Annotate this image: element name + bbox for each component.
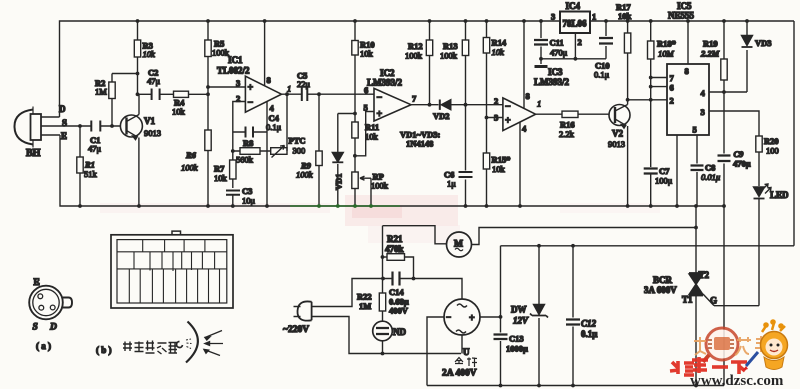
svg-text:1: 1 <box>537 99 541 109</box>
svg-text:R20: R20 <box>764 136 779 146</box>
capacitor C6 <box>459 105 473 206</box>
svg-text:V1: V1 <box>144 116 155 126</box>
svg-text:S: S <box>33 323 38 333</box>
resistor R15* <box>483 118 489 207</box>
svg-text:IC5: IC5 <box>677 1 692 11</box>
svg-text:300: 300 <box>293 146 306 156</box>
svg-text:BH: BH <box>26 148 41 159</box>
resistor R17 <box>624 21 630 100</box>
svg-text:100μ: 100μ <box>655 176 673 186</box>
svg-text:0.1μ: 0.1μ <box>266 122 282 132</box>
svg-text:R7: R7 <box>214 164 225 174</box>
svg-text:10k: 10k <box>143 49 156 59</box>
svg-text:0.1μ: 0.1μ <box>594 70 610 80</box>
wire: gate wire to LED column <box>714 305 759 307</box>
svg-text:R19: R19 <box>703 39 718 49</box>
svg-text:www.dzsc.com: www.dzsc.com <box>690 373 784 389</box>
svg-text:8: 8 <box>685 66 689 76</box>
svg-text:V2: V2 <box>612 129 623 139</box>
resistor R11 <box>352 114 358 156</box>
svg-text:R16: R16 <box>560 120 575 130</box>
wire: bridge bottom to AC2 <box>461 335 463 354</box>
svg-text:LM393/2: LM393/2 <box>534 77 569 87</box>
svg-text:22μ: 22μ <box>297 79 311 89</box>
svg-text:3: 3 <box>494 113 498 123</box>
svg-text:100k: 100k <box>296 170 313 180</box>
svg-text:100k: 100k <box>405 51 423 61</box>
wire: IC4 pin2 ground wire <box>541 33 606 59</box>
svg-text:+: + <box>469 313 475 324</box>
svg-text:2.2k: 2.2k <box>559 129 575 139</box>
svg-text:IC4: IC4 <box>566 1 581 11</box>
svg-text:47μ: 47μ <box>88 144 102 154</box>
wire: node A (VD1/R10/R11) <box>338 113 355 115</box>
svg-text:ND: ND <box>393 327 406 337</box>
resistor R20 <box>756 136 762 186</box>
svg-text:E: E <box>34 278 40 288</box>
svg-text:10k: 10k <box>492 47 505 57</box>
svg-text:10k: 10k <box>492 164 506 174</box>
svg-text:47μ: 47μ <box>147 76 161 86</box>
watermark pink residue blocks <box>100 195 660 243</box>
wire: IC2 pin5 to R11/RP node <box>355 112 374 156</box>
wire: top supply rail right of IC4 (6V/12V side) <box>590 20 794 22</box>
svg-text:TL082/2: TL082/2 <box>217 66 250 76</box>
wire: C5 to IC2 pin6 <box>319 93 374 95</box>
wire: S signal wire to V1 base <box>45 125 121 127</box>
svg-text:1M: 1M <box>359 301 371 311</box>
svg-text:E: E <box>61 131 67 141</box>
svg-text:R14: R14 <box>492 38 507 48</box>
svg-text:−: − <box>248 98 254 109</box>
capacitor C9 <box>718 92 731 206</box>
resistor R10 <box>352 21 358 114</box>
watermark: magnifier logo with chip <box>703 328 738 362</box>
svg-text:6: 6 <box>364 85 368 95</box>
svg-text:8: 8 <box>526 91 530 101</box>
wire: IC5 pin3 output wire <box>709 111 759 136</box>
wire: V2 collector node to IC5 pin2 <box>628 99 667 101</box>
svg-text:+: + <box>505 116 511 127</box>
wire: motor to triac T2 <box>472 228 697 245</box>
svg-text:T2: T2 <box>699 270 710 280</box>
wire: V1 collector node to C2 <box>138 93 152 95</box>
sensor pinout diagram (a) <box>29 286 72 320</box>
green tinted segment of ground rail <box>290 205 400 207</box>
wire: IC5 pin6 link <box>651 86 667 88</box>
svg-text:2: 2 <box>578 37 582 47</box>
svg-text:C12: C12 <box>581 319 597 329</box>
svg-text:1M: 1M <box>95 87 107 97</box>
wire: IC1 pin2 to feedback node <box>233 102 246 152</box>
svg-text:IC1: IC1 <box>228 55 243 65</box>
wire: right edge vertical from top rail down to DC+ wire <box>793 21 795 246</box>
label U 2A400V bridge <box>442 347 477 379</box>
wire: R14/R15 node to IC3 pin3 <box>487 117 503 119</box>
svg-text:U: U <box>463 347 470 357</box>
watermark: mascot <box>742 319 788 371</box>
svg-text:100k: 100k <box>440 51 458 61</box>
svg-text:2.2M: 2.2M <box>700 49 720 59</box>
capacitor C12 <box>566 246 580 386</box>
svg-text:100k: 100k <box>371 181 389 191</box>
junction dots power section <box>381 226 698 388</box>
label bridge CJK (quan qiao) <box>455 358 477 368</box>
lens cross-section sketch <box>177 322 223 363</box>
timer IC5 NE555 <box>667 64 709 135</box>
svg-text:R11: R11 <box>365 122 379 132</box>
svg-text:560k: 560k <box>236 155 254 165</box>
svg-text:R13: R13 <box>443 41 458 51</box>
label Fresnel lens CJK (fei nie er tou jing) <box>123 341 177 355</box>
svg-text:+: + <box>248 83 254 94</box>
resistor R5 <box>205 21 211 87</box>
svg-text:R22: R22 <box>357 292 372 302</box>
svg-text:IC2: IC2 <box>380 68 395 78</box>
wire: IC5 pin7 link <box>651 77 667 79</box>
svg-text:VD2: VD2 <box>433 111 450 121</box>
junction dots on ground rail <box>78 204 726 208</box>
svg-text:0.01μ: 0.01μ <box>701 172 720 182</box>
svg-text:LED: LED <box>770 190 789 200</box>
resistor R9 <box>316 94 322 206</box>
svg-text:10k: 10k <box>360 49 374 59</box>
svg-text:6: 6 <box>670 83 674 93</box>
junction dots signal nodes <box>78 57 726 158</box>
svg-text:R1: R1 <box>84 160 95 170</box>
svg-text:470k: 470k <box>385 244 404 254</box>
resistor R22 <box>379 293 385 311</box>
transistor V1 9013 <box>120 94 142 206</box>
svg-text:100: 100 <box>766 146 779 156</box>
svg-text:−: − <box>505 102 511 113</box>
svg-text:470μ: 470μ <box>733 159 751 169</box>
svg-text:G: G <box>710 296 717 306</box>
sensor BH (pyroelectric infrared detector) <box>14 107 60 148</box>
svg-text:M: M <box>454 240 463 250</box>
capacitor C1 <box>91 121 100 132</box>
svg-text:3A 600V: 3A 600V <box>644 285 677 295</box>
regulator IC4 78L06 <box>560 12 590 34</box>
svg-text:1μ: 1μ <box>447 179 456 189</box>
wire: IC1 output node and feedback vertical <box>282 94 302 151</box>
svg-text:R8: R8 <box>243 138 253 148</box>
svg-text:3: 3 <box>236 78 240 88</box>
svg-text:10M: 10M <box>658 49 675 59</box>
wire: bridge plus to DC+ node <box>480 246 794 317</box>
transistor V2 9013 <box>609 100 630 206</box>
wire: bridge AC1 top terminal <box>414 279 463 300</box>
resistor R2 <box>109 74 115 127</box>
wire: IC3 pin4 to ground rail <box>519 122 521 206</box>
svg-text:1: 1 <box>287 84 291 94</box>
wire: IC5 pin8 to top rail <box>687 21 689 64</box>
diode VD2 <box>440 100 503 110</box>
mains plug <box>294 301 312 320</box>
svg-text:NE555: NE555 <box>668 11 695 21</box>
svg-text:BCR: BCR <box>653 275 673 285</box>
watermark: zhao xin pian CJK outline text <box>694 336 769 355</box>
svg-text:12V: 12V <box>513 316 529 326</box>
svg-text:( b ): ( b ) <box>96 345 112 355</box>
svg-text:LM393/2: LM393/2 <box>367 78 402 88</box>
svg-text:C7: C7 <box>659 166 670 176</box>
svg-text:2A 400V: 2A 400V <box>442 369 477 379</box>
resistor R14 <box>483 21 489 118</box>
svg-text:−: − <box>377 93 383 104</box>
resistor R16 <box>536 111 609 117</box>
resistor R1 <box>77 126 83 206</box>
svg-text:C13: C13 <box>509 334 524 344</box>
svg-text:1N4148: 1N4148 <box>406 139 433 149</box>
svg-text:3: 3 <box>701 107 705 117</box>
wire: mains line 2 to bridge AC2 <box>312 317 461 354</box>
wire: C2 to R4 <box>160 93 174 95</box>
capacitor C10 <box>599 21 613 59</box>
capacitor C11 <box>534 21 548 64</box>
diode VD1 <box>332 114 343 207</box>
svg-text:C9: C9 <box>734 149 745 159</box>
resistor R18* <box>648 21 654 167</box>
capacitor C13 <box>494 317 508 386</box>
wire: IC2 output to VD2 <box>411 104 439 106</box>
svg-text:D: D <box>49 323 57 333</box>
junction dots on top supply rail <box>136 19 749 23</box>
svg-text:10k: 10k <box>172 107 186 117</box>
svg-text:R6: R6 <box>185 150 197 160</box>
svg-text:100k: 100k <box>181 163 198 173</box>
watermark: weiku yixia red CJK text <box>670 357 747 375</box>
motor M <box>447 232 472 257</box>
svg-text:~220V: ~220V <box>283 325 309 335</box>
capacitor C4 <box>233 127 267 138</box>
svg-text:51k: 51k <box>84 169 98 179</box>
svg-text:−: − <box>446 312 451 322</box>
svg-text:2: 2 <box>670 96 674 106</box>
capacitor C3 <box>226 191 240 207</box>
svg-text:10μ: 10μ <box>242 196 256 206</box>
svg-text:10k: 10k <box>618 11 632 21</box>
svg-text:9013: 9013 <box>608 139 625 149</box>
svg-text:R18*: R18* <box>657 39 676 49</box>
svg-text:78L06: 78L06 <box>563 19 588 29</box>
svg-text:1: 1 <box>592 12 596 22</box>
svg-text:8: 8 <box>267 75 271 85</box>
svg-text:D: D <box>59 104 66 114</box>
svg-text:R21: R21 <box>387 234 403 244</box>
wire: bottom ground rail of amplifier circuit <box>60 135 724 206</box>
op-amp IC2 LM393/2 (first comparator) <box>374 88 411 121</box>
wire: IC1 pin8 to top rail <box>264 21 266 86</box>
svg-text:VD1: VD1 <box>334 173 344 190</box>
op-amp IC1 TL082/2 <box>245 76 281 112</box>
wire: top supply rail left of IC4 <box>60 21 561 117</box>
svg-text:C11: C11 <box>550 38 564 48</box>
capacitor C7 <box>644 169 658 207</box>
svg-text:10k: 10k <box>214 173 228 183</box>
wire: IC5 pin1 to ground rail <box>676 135 678 206</box>
svg-text:C14: C14 <box>389 287 404 297</box>
neon lamp ND <box>373 321 393 341</box>
resistor R7 <box>230 151 236 188</box>
svg-text:5: 5 <box>693 125 697 135</box>
resistor R21 <box>383 254 414 279</box>
wire: IC1 pin4 to ground rail <box>266 102 268 207</box>
svg-text:9013: 9013 <box>144 128 161 138</box>
junction dots (green tinted section of ground rail) <box>317 204 373 208</box>
resistor R12 <box>426 21 432 105</box>
op-amp IC3 LM393/2 (second comparator) <box>503 98 536 131</box>
capacitor C14 <box>383 272 414 286</box>
svg-text:1000μ: 1000μ <box>506 344 528 354</box>
resistor R3 <box>134 21 140 94</box>
ground symbol (IC4 common) <box>535 65 548 68</box>
svg-text:+: + <box>377 109 383 120</box>
wire: divider node to IC1 pin3 <box>208 86 245 88</box>
potentiometer RP <box>352 156 371 206</box>
triac BCR <box>689 206 714 386</box>
svg-text:R15*: R15* <box>492 155 511 165</box>
svg-text:3: 3 <box>551 12 555 22</box>
svg-text:PTC: PTC <box>289 136 306 146</box>
resistor R4 <box>174 91 209 97</box>
svg-text:T1: T1 <box>682 295 693 305</box>
diode VD3 <box>742 21 753 92</box>
wire: R2 top to R3 bottom <box>112 73 138 75</box>
resistor R19 <box>721 21 727 92</box>
svg-text:IC3: IC3 <box>548 67 563 77</box>
bridge rectifier U <box>444 299 480 335</box>
wire: motor feed wire from dropper column <box>383 226 448 244</box>
svg-text:C8: C8 <box>705 163 715 173</box>
capacitor C8 on IC5 pin5 <box>691 135 704 206</box>
thermistor PTC <box>271 146 287 158</box>
zener diode DW <box>530 246 548 386</box>
svg-text:2: 2 <box>494 96 498 106</box>
LED <box>754 184 772 306</box>
wire: IC3 pin8 to top rail <box>523 21 525 109</box>
svg-text:R12: R12 <box>408 41 423 51</box>
wire: power ground rail <box>427 385 724 387</box>
svg-text:C3: C3 <box>242 186 252 196</box>
svg-text:DW: DW <box>511 305 527 315</box>
svg-text:( a ): ( a ) <box>36 341 51 351</box>
wire: dropper vertical (R21/R22/ND column) <box>382 226 384 354</box>
svg-text:10k: 10k <box>365 132 379 142</box>
capacitor C5 <box>302 88 319 102</box>
resistor R8 <box>233 148 271 155</box>
Fresnel lens panel (b) <box>111 231 233 308</box>
capacitor C2 <box>152 89 160 101</box>
resistor R6 <box>205 87 211 206</box>
wire: IC5 pin4 reset wire <box>709 91 747 93</box>
wire: mains line 1 to RC dropper <box>312 279 383 307</box>
svg-text:0.1μ: 0.1μ <box>581 329 597 339</box>
wire: bridge minus to power ground <box>427 317 444 386</box>
svg-text:470μ: 470μ <box>550 48 568 58</box>
ground tie vertical from signal ground to power ground <box>723 206 725 386</box>
svg-text:400V: 400V <box>389 306 409 316</box>
resistor R13 <box>462 21 468 105</box>
svg-text:VD3: VD3 <box>755 38 772 48</box>
